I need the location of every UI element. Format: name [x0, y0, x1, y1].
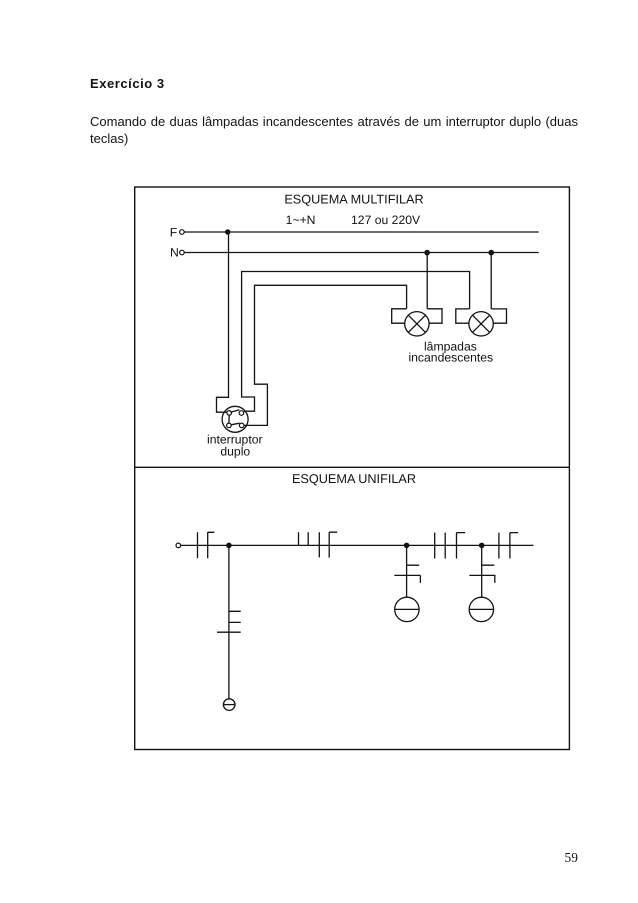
wire N to lamp 1 [426, 253, 428, 309]
conductor ticks group 3 [435, 533, 466, 559]
wire N neutral line [184, 252, 538, 254]
svg-text:ESQUEMA UNIFILAR: ESQUEMA UNIFILAR [292, 472, 416, 486]
svg-text:ESQUEMA MULTIFILAR: ESQUEMA MULTIFILAR [284, 193, 423, 207]
svg-text:F: F [170, 226, 177, 240]
svg-text:1~+N: 1~+N [286, 213, 316, 227]
wire drop to lamp 2 [481, 545, 483, 597]
switch terminal top-right [239, 411, 244, 416]
conductor ticks on switch drop [217, 611, 241, 632]
lamp L2 [469, 312, 493, 336]
junction to lamp 1 drop [404, 543, 410, 549]
switch symbol unifilar [223, 699, 235, 711]
lamp L1 holder bracket [392, 309, 442, 323]
junction on N line for lamp 2 [488, 250, 494, 256]
wire drop to lamp 1 [406, 545, 408, 597]
paragraph line 2 [90, 131, 128, 146]
junction on N line for lamp 1 [424, 250, 430, 256]
switch lever top [231, 410, 240, 413]
wire N to lamp 2 [490, 253, 492, 309]
wire switch to lamp 1 feed [244, 285, 407, 425]
junction to lamp 2 drop [479, 543, 485, 549]
lamp L1 [405, 312, 429, 336]
svg-text:duplo: duplo [220, 444, 250, 458]
svg-text:incandescentes: incandescentes [408, 351, 493, 365]
wire from F junction down to switch [217, 232, 229, 412]
terminal F [180, 230, 185, 235]
switch terminal bottom-left [227, 423, 232, 428]
page number 59 [565, 850, 578, 866]
conductor ticks on lamp 1 drop [394, 565, 420, 583]
switch terminal bottom-right [239, 423, 244, 428]
svg-text:127 ou 220V: 127 ou 220V [351, 213, 421, 227]
terminal unifilar feed [176, 543, 181, 548]
switch terminal top-left [227, 411, 232, 416]
wire F phase line [184, 231, 538, 233]
svg-text:N: N [170, 245, 179, 259]
wire unifilar main run [181, 544, 534, 546]
lamp L2 holder bracket [456, 309, 507, 323]
junction on F line [225, 229, 230, 234]
title Exercício 3 [90, 76, 165, 91]
wire switch to lamp 2 feed [242, 272, 470, 412]
conductor ticks group 2 [299, 532, 338, 557]
conductor ticks on lamp 2 drop [469, 565, 495, 583]
terminal N [180, 250, 185, 255]
label interruptor duplo [207, 432, 263, 458]
conductor ticks group 1 [198, 532, 215, 558]
switch pole link [228, 415, 230, 423]
label lâmpadas incandescentes [408, 339, 493, 364]
switch S1 body [222, 406, 248, 432]
wire drop to switch [228, 545, 230, 699]
lamp symbol unifilar 1 [395, 597, 419, 621]
junction to switch drop [226, 543, 232, 549]
lamp symbol unifilar 2 [469, 597, 493, 621]
paragraph line 1 [90, 114, 578, 129]
switch lever bottom [231, 423, 240, 425]
conductor ticks group 4 [499, 533, 518, 559]
